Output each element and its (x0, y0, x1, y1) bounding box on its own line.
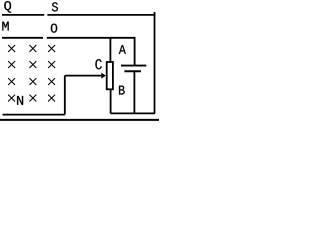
wire circuit bottom (111, 112, 156, 114)
wire capacitor bottom lead (133, 71, 135, 113)
field symbol x row1 col1 (8, 45, 15, 52)
field symbol x row1 col3 (48, 45, 55, 52)
wire wiper riser (64, 76, 66, 115)
rail MO left segment (2, 37, 43, 39)
frame bottom border (0, 119, 159, 121)
field symbol x row4 col2 (29, 95, 36, 102)
rail MO right segment (47, 37, 136, 39)
label A (119, 45, 126, 54)
field symbol x row3 col3 (48, 78, 55, 85)
magnetic field symbols (B into page) (8, 45, 55, 102)
node O (51, 24, 57, 33)
field symbol x row1 col2 (29, 45, 36, 52)
field symbol x row4 col3 (48, 95, 55, 102)
node M (2, 22, 8, 31)
wire wiper arm (65, 75, 102, 77)
rail QS right segment (47, 14, 155, 16)
node S (52, 2, 58, 11)
label C (95, 59, 101, 69)
node N (17, 96, 23, 105)
capacitor plate A (top, long) (121, 65, 146, 67)
wire wiper bottom left (3, 114, 65, 116)
field symbol x row4 col1 (8, 95, 15, 102)
node Q (4, 1, 11, 12)
field symbol x row3 col1 (8, 78, 15, 85)
label B (119, 86, 125, 95)
field symbol x row2 col3 (48, 61, 55, 68)
wire rail MO corner down to capacitor (134, 38, 136, 66)
wiper arrowhead C (101, 73, 106, 79)
field symbol x row3 col2 (29, 78, 36, 85)
resistor R (rheostat body) (107, 62, 113, 89)
wire resistor bottom lead (110, 89, 112, 113)
wire resistor top lead (109, 38, 111, 62)
capacitor plate B (bottom, short) (124, 70, 141, 72)
rail QS left segment (2, 14, 44, 16)
wire right branch from rail QS down (154, 12, 156, 113)
field symbol x row2 col2 (29, 61, 36, 68)
field symbol x row2 col1 (8, 61, 15, 68)
